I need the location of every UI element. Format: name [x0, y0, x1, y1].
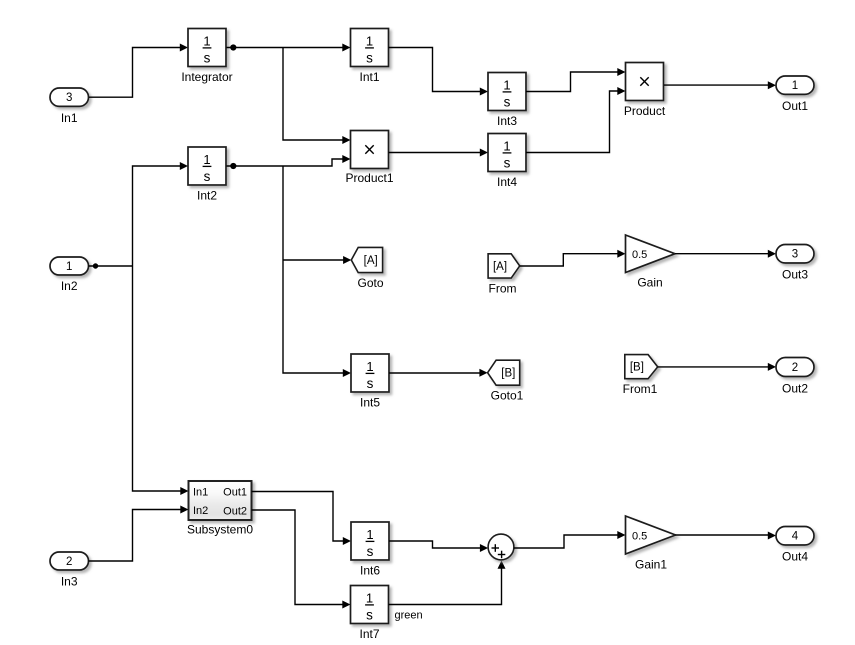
wire Int4 to Product input 2 [526, 91, 618, 153]
inport In3 [50, 552, 89, 589]
svg-text:Goto1: Goto1 [491, 389, 524, 403]
inport In2 [50, 257, 89, 293]
integrator U Integrator [181, 29, 232, 85]
svg-text:From1: From1 [623, 382, 658, 396]
wire From1 to Out2 [658, 366, 769, 368]
integrator U Int1 [351, 29, 389, 85]
svg-text:Int2: Int2 [197, 189, 217, 203]
wire Product to Out1 [664, 84, 769, 86]
from tag From [488, 254, 520, 296]
integrator U Int7 [351, 586, 389, 642]
arrowhead into Subsystem In2 [180, 506, 188, 514]
wire Gain to Out3 [675, 253, 769, 255]
svg-text:1: 1 [792, 80, 798, 92]
svg-text:[B]: [B] [501, 368, 515, 380]
svg-text:s: s [367, 544, 374, 559]
svg-text:[A]: [A] [493, 261, 507, 273]
arrowhead into Int2 [180, 162, 188, 170]
arrowhead into Int3 [480, 88, 488, 96]
svg-text:2: 2 [66, 556, 72, 568]
wire Product1 to Int4 [389, 152, 481, 154]
svg-text:Int7: Int7 [359, 627, 379, 641]
outport Out4 [776, 527, 814, 564]
wire In3 to Subsystem In2 [89, 510, 182, 562]
svg-text:1: 1 [366, 591, 373, 606]
product block Product [624, 63, 666, 119]
integrator U Int2 [188, 147, 226, 203]
junction dot at Integrator output [230, 44, 236, 50]
svg-text:1: 1 [66, 261, 72, 273]
arrowhead into Int1 [342, 44, 350, 52]
gain block Gain [626, 235, 676, 290]
wire In1 to Integrator [89, 48, 181, 98]
arrowhead into Int6 [343, 537, 351, 545]
wire From to Gain [520, 254, 618, 266]
wire trunk down to Subsystem In1 [133, 266, 182, 491]
arrowhead into Int5 [343, 369, 351, 377]
arrowhead into Out1 [768, 81, 776, 89]
inport In1 [50, 88, 89, 125]
svg-text:Product: Product [624, 104, 666, 118]
svg-text:0.5: 0.5 [632, 249, 647, 261]
outport Out3 [776, 245, 814, 282]
arrowhead into Integrator [180, 44, 188, 52]
svg-text:Int5: Int5 [360, 396, 380, 410]
outport Out1 [776, 76, 814, 113]
svg-text:Product1: Product1 [345, 171, 393, 185]
svg-text:Subsystem0: Subsystem0 [187, 523, 253, 537]
arrowhead into Sum bottom input [498, 561, 506, 569]
svg-text:1: 1 [503, 78, 510, 93]
arrowhead into Int4 [480, 149, 488, 157]
svg-text:Out4: Out4 [782, 550, 808, 564]
svg-text:Int3: Int3 [497, 114, 517, 128]
integrator U Int3 [488, 73, 526, 129]
svg-text:4: 4 [792, 531, 799, 543]
svg-text:Int4: Int4 [497, 175, 517, 189]
svg-text:1: 1 [366, 34, 373, 49]
svg-text:s: s [366, 50, 373, 65]
wire branch to Product1 input 1 [283, 48, 343, 141]
svg-text:1: 1 [503, 139, 510, 154]
arrowhead into Sum left input [480, 544, 488, 552]
wire Int3 to Product input 1 [526, 72, 618, 92]
svg-text:Gain1: Gain1 [635, 558, 667, 572]
wire Subsystem Out1 to Int6 [252, 492, 344, 542]
arrowhead into Gain [617, 250, 625, 258]
svg-text:Out1: Out1 [782, 99, 808, 113]
svg-text:s: s [204, 169, 211, 184]
gain block Gain1 [626, 516, 676, 572]
svg-text:Out2: Out2 [223, 506, 247, 518]
wire Integrator to Int1 [227, 47, 344, 49]
integrator U Int5 [351, 354, 389, 410]
wire trunk branch to Goto [283, 259, 344, 261]
goto tag Goto1 [488, 360, 524, 402]
outport Out2 [776, 358, 814, 396]
arrowhead into Product1 input 2 [342, 155, 350, 163]
svg-text:s: s [504, 94, 511, 109]
svg-text:1: 1 [366, 527, 373, 542]
svg-text:Out3: Out3 [782, 268, 808, 282]
svg-text:From: From [489, 282, 517, 296]
wire Sum to Gain1 [514, 535, 618, 548]
svg-text:Goto: Goto [357, 276, 383, 290]
svg-text:s: s [504, 155, 511, 170]
product block Product1 [345, 131, 393, 186]
svg-text:s: s [204, 50, 211, 65]
arrowhead into Gain1 [617, 531, 625, 539]
arrowhead into Product input 2 [617, 87, 625, 95]
wire Subsystem Out2 to Int7 [252, 510, 344, 605]
svg-text:In3: In3 [61, 575, 78, 589]
arrowhead into Goto1 [479, 369, 487, 377]
integrator U Int6 [351, 522, 389, 578]
wire Int5 to Goto1 [389, 372, 480, 374]
arrowhead into Goto [343, 256, 351, 264]
svg-text:Gain: Gain [637, 276, 662, 290]
svg-text:In1: In1 [61, 111, 78, 125]
svg-text:green: green [395, 610, 423, 622]
svg-text:In2: In2 [193, 505, 208, 517]
arrowhead into Out3 [768, 250, 776, 258]
arrowhead into Product input 1 [617, 68, 625, 76]
goto tag Goto [351, 247, 384, 290]
svg-text:s: s [367, 376, 374, 391]
wire trunk up to Int2 [133, 166, 181, 266]
arrowhead into Product1 input 1 [342, 136, 350, 144]
wire In2 to trunk [89, 265, 133, 267]
wire Int2 to Product1 input 2 [227, 159, 344, 166]
wire Int6 to Sum [389, 541, 481, 548]
svg-text:1: 1 [203, 34, 210, 49]
arrowhead into Out4 [768, 532, 776, 540]
svg-text:s: s [366, 607, 373, 622]
wire Int1 to Int3 [389, 48, 481, 92]
svg-text:0.5: 0.5 [632, 531, 647, 543]
svg-text:2: 2 [792, 362, 798, 374]
svg-text:In1: In1 [193, 487, 208, 499]
from tag From1 [623, 355, 658, 396]
svg-text:In2: In2 [61, 279, 78, 293]
svg-text:3: 3 [792, 249, 798, 261]
integrator U Int4 [488, 134, 526, 190]
arrowhead into Int7 [342, 601, 350, 609]
wire Int7 to Sum bottom [389, 569, 502, 605]
svg-text:Int6: Int6 [360, 564, 380, 578]
junction dot at In2 output [93, 263, 98, 268]
sum block Sum [488, 534, 514, 560]
svg-text:Out1: Out1 [223, 487, 247, 499]
svg-text:Integrator: Integrator [181, 70, 232, 84]
svg-text:1: 1 [203, 152, 210, 167]
svg-text:[A]: [A] [364, 255, 378, 267]
svg-text:1: 1 [366, 359, 373, 374]
svg-text:Out2: Out2 [782, 382, 808, 396]
svg-text:Int1: Int1 [359, 70, 379, 84]
svg-text:[B]: [B] [630, 362, 644, 374]
arrowhead into Out2 [768, 363, 776, 371]
wire Gain1 to Out4 [676, 534, 769, 536]
junction dot at Int2 output [230, 163, 236, 169]
subsystem block Subsystem0 [187, 481, 253, 537]
wire Int2 branch trunk down [283, 166, 344, 373]
svg-text:3: 3 [66, 92, 72, 104]
arrowhead into Subsystem In1 [180, 487, 188, 495]
